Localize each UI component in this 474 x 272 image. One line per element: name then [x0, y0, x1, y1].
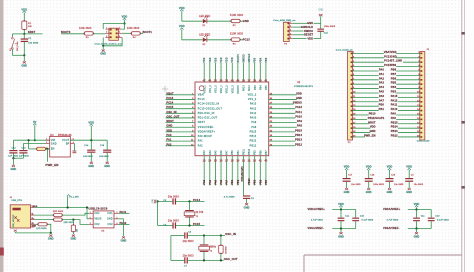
svg-text:VDD_3: VDD_3 [232, 85, 234, 94]
svg-text:GND: GND [338, 235, 344, 238]
svg-text:1uF 0603: 1uF 0603 [19, 155, 29, 157]
svg-text:NRST: NRST [166, 119, 174, 123]
wire [14, 232, 16, 233]
wire [314, 22, 321, 24]
svg-text:0.1uF 0603: 0.1uF 0603 [437, 220, 449, 222]
svg-text:104 0603: 104 0603 [99, 156, 109, 158]
wire (U2 top pin) [242, 63, 244, 82]
wire [346, 182, 348, 188]
svg-text:PA4: PA4 [209, 150, 212, 155]
svg-text:VDD: VDD [232, 57, 234, 62]
junction [340, 208, 342, 210]
wire VOUT rail [70, 139, 107, 141]
wire (U2 left pin 3) [166, 103, 196, 105]
junction [34, 139, 36, 141]
junction [203, 234, 205, 236]
wire (P2 pin 15) [396, 114, 420, 116]
svg-text:44: 44 [208, 79, 212, 82]
wire [181, 11, 183, 21]
svg-text:USB_OTG: USB_OTG [11, 200, 22, 202]
wire [46, 149, 48, 162]
wire [220, 236, 222, 246]
svg-text:PA7: PA7 [379, 98, 385, 102]
svg-text:4: 4 [73, 142, 74, 144]
svg-text:PA9: PA9 [391, 111, 397, 115]
power flag VDD (C17) [345, 168, 348, 170]
resistor R7 22R [54, 214, 63, 217]
LED D2 PC13 LED [203, 38, 207, 43]
wire (U2 right pin 32) [269, 126, 297, 128]
svg-text:GND: GND [391, 54, 397, 58]
svg-text:10n 0603: 10n 0603 [351, 184, 361, 186]
svg-text:Conn_02x03_2.54mm_2un: Conn_02x03_2.54mm_2un [95, 44, 122, 46]
svg-text:40: 40 [259, 79, 263, 82]
svg-text:VDD: VDD [406, 165, 412, 169]
capacitor C3 4.7u (below U2) [243, 195, 250, 196]
connector P4 SWD 1x5 header [284, 22, 290, 41]
wire [220, 253, 222, 260]
svg-text:44: 44 [236, 79, 240, 82]
wire 8M gnd rail [170, 236, 172, 261]
wire (P1 pin 3) [353, 61, 384, 63]
svg-text:16: 16 [220, 160, 224, 163]
svg-text:PC15: PC15 [166, 105, 173, 109]
svg-text:I/O2: I/O2 [94, 224, 100, 226]
wire (U2 top pin) [209, 63, 211, 82]
wire (U2 right pin 35) [269, 140, 296, 142]
wire (P1 pin 17) [353, 123, 369, 125]
svg-text:43: 43 [264, 160, 268, 163]
ground (SWD) pointing up [319, 14, 323, 16]
pin stub J4 pin 5 [31, 226, 35, 228]
wire (P2 pin 6) [396, 74, 420, 76]
svg-text:PA10: PA10 [250, 117, 257, 120]
wire (U2 right pin 31) [269, 122, 297, 124]
wire [24, 33, 42, 35]
junction [23, 33, 25, 35]
svg-text:PD1-OSC_OUT: PD1-OSC_OUT [198, 118, 218, 120]
resistor R1 10K (NRST pull-up) [22, 21, 27, 29]
svg-text:Conn_01x20: Conn_01x20 [417, 141, 431, 143]
wire [189, 201, 191, 210]
capacitor C14 10uF (VOUT) [87, 150, 95, 151]
wire (P1 pin 8) [353, 83, 379, 85]
svg-text:PC15: PC15 [193, 222, 201, 226]
wire (U2 top pin) [248, 63, 250, 82]
wire [46, 148, 48, 150]
svg-text:1: 1 [290, 22, 291, 24]
svg-text:GND: GND [121, 240, 127, 243]
ground (C14) [90, 162, 93, 164]
svg-text:PB10: PB10 [249, 178, 251, 185]
wire [340, 221, 342, 228]
capacitor 0.1uF (VDDA) [352, 218, 359, 219]
svg-text:PA7: PA7 [226, 179, 229, 184]
svg-text:USB_MICRO: USB_MICRO [13, 214, 15, 228]
wire [176, 200, 205, 202]
wire [23, 34, 25, 39]
svg-text:VDD: VDD [344, 165, 350, 169]
svg-text:PA8: PA8 [391, 116, 397, 120]
pin stub U1 VOUT [70, 139, 74, 141]
wire [389, 170, 391, 178]
svg-text:R5: R5 [233, 25, 236, 27]
wire [62, 213, 89, 215]
svg-text:PA6: PA6 [220, 179, 223, 184]
svg-text:PA1: PA1 [166, 138, 172, 142]
svg-text:VDDA/VREF+: VDDA/VREF+ [308, 207, 326, 211]
wire [408, 182, 410, 188]
wire [408, 209, 431, 211]
svg-text:1: 1 [90, 212, 91, 214]
svg-text:NRST: NRST [368, 120, 376, 124]
svg-text:VSS_3: VSS_3 [216, 85, 218, 93]
junction [90, 139, 92, 141]
wire [118, 212, 129, 214]
wire (P2 pin 9) [396, 88, 420, 90]
svg-text:36: 36 [225, 79, 229, 82]
svg-text:PB5: PB5 [266, 85, 268, 90]
svg-text:VSS_2: VSS_2 [210, 85, 212, 93]
svg-text:RT9193-33: RT9193-33 [58, 134, 72, 137]
wire [181, 30, 183, 40]
svg-text:20p 0603: 20p 0603 [183, 240, 194, 243]
pin stub U1 GND [46, 143, 50, 145]
wire [368, 182, 370, 188]
connector P2 1x20 header [420, 52, 425, 141]
wire (U2 left pin 12) [166, 145, 196, 147]
crystal Y2 8MHz [200, 244, 209, 245]
svg-text:48: 48 [231, 79, 235, 82]
wire (U2 top pin) [259, 63, 261, 82]
resistor R6 510R [231, 38, 240, 41]
svg-text:VSS: VSS [215, 57, 217, 62]
svg-text:VDDA/VREF+: VDDA/VREF+ [383, 207, 401, 211]
svg-text:PA14: PA14 [248, 85, 251, 92]
wire (U2 bottom pin) [237, 156, 239, 186]
pin stub J4 pin 1 [31, 207, 35, 209]
svg-text:4.7u 0603: 4.7u 0603 [224, 196, 235, 198]
wire [140, 32, 143, 34]
wire (P1 pin 2) [353, 57, 384, 59]
wire [416, 221, 418, 228]
svg-text:PA15: PA15 [391, 94, 398, 98]
wire (P1 pin 14) [353, 110, 379, 112]
svg-text:6: 6 [116, 212, 117, 214]
svg-text:C10: C10 [435, 215, 440, 217]
wire [72, 232, 74, 234]
ESD protection U3 body [93, 211, 114, 228]
wire (U2 bottom pin) [203, 156, 205, 186]
svg-text:D1: D1 [203, 25, 206, 27]
svg-text:VDD: VDD [227, 57, 229, 62]
wire [23, 42, 25, 55]
svg-text:VDD: VDD [414, 202, 420, 206]
wire (P2 pin 7) [396, 79, 420, 81]
wire (U2 left pin 1) [166, 94, 196, 96]
svg-text:PB7: PB7 [266, 179, 268, 184]
wire (P2 pin 4) [396, 66, 420, 68]
svg-text:BOOT0: BOOT0 [238, 85, 240, 94]
wire (P1 pin 7) [353, 79, 379, 81]
wire ID [35, 223, 38, 225]
wire [240, 39, 243, 41]
wire [22, 144, 24, 151]
svg-text:VSSA/VREF-: VSSA/VREF- [198, 126, 215, 129]
svg-text:PD0-OSC_IN: PD0-OSC_IN [198, 113, 215, 115]
svg-text:VSSA/VREF-: VSSA/VREF- [308, 226, 325, 230]
capacitor 0.1uF (VDDA) [428, 218, 435, 219]
wire [188, 259, 224, 261]
svg-text:PA9: PA9 [251, 121, 256, 124]
svg-text:VOUT: VOUT [62, 140, 70, 142]
svg-text:41: 41 [264, 79, 268, 82]
wire [293, 30, 304, 32]
wire (U2 left pin 7) [166, 122, 196, 124]
resistor R11 1K5 [38, 223, 47, 226]
svg-text:PB5: PB5 [266, 57, 268, 62]
svg-text:C13: C13 [22, 147, 27, 149]
wire (P1 pin 1) [353, 52, 384, 54]
wire [293, 26, 302, 28]
svg-text:Conn_ARM_SWD_sm: Conn_ARM_SWD_sm [273, 19, 295, 22]
svg-text:14: 14 [208, 160, 212, 163]
svg-text:GND: GND [318, 10, 323, 12]
wire [50, 233, 52, 234]
pin stubs of P4 [289, 22, 292, 24]
svg-text:PA11: PA11 [391, 103, 398, 107]
svg-text:SWDIO: SWDIO [293, 101, 302, 105]
junction [86, 206, 88, 208]
svg-text:PB14: PB14 [391, 125, 398, 129]
wire (U2 bottom pin) [220, 156, 222, 186]
capacitor C1 [21, 38, 28, 39]
svg-text:39: 39 [253, 79, 257, 82]
wire (U2 left pin 6) [166, 117, 196, 119]
svg-text:37: 37 [248, 79, 252, 82]
svg-text:GND: GND [100, 53, 106, 56]
svg-text:PC14: PC14 [193, 198, 201, 202]
crystal Y1 32.768kHz [185, 210, 194, 211]
wire [47, 224, 50, 233]
svg-text:VDD_1: VDD_1 [221, 85, 223, 94]
svg-text:PB0: PB0 [232, 179, 234, 184]
wire [332, 209, 355, 211]
ground [102, 50, 105, 52]
resistor R8 22R [54, 218, 63, 221]
wire [72, 220, 74, 225]
svg-text:PA13: PA13 [243, 85, 246, 92]
svg-text:GND: GND [104, 165, 110, 168]
wire [90, 126, 92, 140]
svg-text:100k 0603: 100k 0603 [127, 27, 140, 30]
power flag VDD (PC13 LED) [180, 28, 183, 30]
wire (U2 bottom pin) [231, 156, 233, 186]
ground (C3) [245, 203, 248, 205]
svg-text:24: 24 [220, 79, 224, 82]
wire [23, 13, 25, 21]
wire BP bypass [73, 144, 75, 151]
svg-text:OSC_OUT: OSC_OUT [166, 114, 179, 118]
svg-text:PB15: PB15 [391, 120, 398, 124]
svg-text:PB14: PB14 [250, 136, 257, 138]
junction [72, 219, 74, 221]
svg-text:4: 4 [119, 32, 120, 34]
svg-text:PB15: PB15 [295, 128, 302, 132]
svg-text:PB13: PB13 [391, 129, 398, 133]
svg-text:17: 17 [225, 160, 229, 163]
resistor R3 100k [84, 32, 93, 35]
wire (P1 pin 20) [353, 136, 366, 138]
wire [340, 210, 342, 218]
wire [156, 200, 172, 202]
svg-text:PC14: PC14 [166, 101, 173, 105]
svg-text:VDD: VDD [179, 6, 185, 10]
svg-text:PB2: PB2 [255, 150, 257, 155]
svg-text:GND: GND [32, 226, 37, 228]
svg-text:PB12: PB12 [295, 142, 302, 146]
ground (USB shield) [14, 230, 17, 232]
svg-text:PB7: PB7 [391, 72, 397, 76]
wire VIN rail [13, 139, 49, 141]
pin stub U1 VIN [46, 139, 50, 141]
svg-text:47: 47 [203, 79, 207, 82]
wire [106, 140, 108, 149]
svg-text:100k 0603: 100k 0603 [79, 27, 92, 30]
wire [207, 39, 231, 41]
wire (U2 top pin) [265, 63, 267, 82]
pin stub U3 I/O1 right [114, 212, 118, 214]
junction [50, 232, 52, 234]
svg-text:PB13: PB13 [250, 141, 257, 143]
wire (U2 top pin) [226, 63, 228, 82]
wire [416, 207, 418, 209]
svg-text:10K: 10K [28, 26, 32, 28]
junction [67, 206, 69, 208]
wire (U2 top pin) [254, 63, 256, 82]
svg-text:4: 4 [116, 223, 117, 225]
wire [207, 20, 231, 22]
svg-text:GND: GND [10, 168, 16, 171]
wire (U2 bottom pin) [209, 156, 211, 186]
wire (U2 left pin 11) [166, 140, 196, 142]
power flag VDD (3.3V) [90, 124, 93, 126]
svg-text:D-: D- [32, 214, 34, 216]
svg-text:PA2: PA2 [166, 142, 172, 146]
wire [320, 16, 322, 23]
svg-text:GND: GND [370, 129, 376, 133]
wire [90, 140, 92, 149]
wire (U2 bottom pin) [214, 156, 216, 186]
svg-text:PA3: PA3 [379, 81, 385, 85]
wire [86, 208, 88, 219]
capacitor C17 decoupling [343, 178, 351, 179]
wire [62, 220, 89, 225]
svg-text:2: 2 [116, 217, 117, 219]
svg-text:2: 2 [290, 26, 291, 28]
svg-text:3: 3 [90, 223, 91, 225]
svg-text:NRST: NRST [28, 30, 36, 34]
svg-text:PB3: PB3 [255, 85, 257, 90]
wire (P2 pin 16) [396, 118, 420, 120]
svg-text:1: 1 [46, 139, 47, 141]
wire [67, 196, 69, 207]
wire (P2 pin 17) [398, 123, 420, 125]
svg-text:PA0: PA0 [379, 67, 385, 71]
svg-text:VDD: VDD [122, 15, 128, 19]
svg-text:I/O1: I/O1 [107, 213, 113, 215]
power flag VDD (C4) [408, 168, 411, 170]
wire (P2 pin 1) [396, 52, 420, 54]
svg-text:6: 6 [119, 36, 120, 38]
svg-text:LED-RED: LED-RED [199, 35, 210, 37]
svg-text:GND: GND [244, 206, 250, 209]
wire [408, 170, 410, 178]
junction [340, 227, 342, 229]
jumper J2 2x3 header [109, 28, 119, 40]
wire [416, 229, 418, 233]
grid origin cross [162, 86, 168, 92]
wire [368, 170, 370, 178]
svg-text:PB0: PB0 [379, 103, 385, 107]
wire 32k gnd rail [157, 201, 159, 225]
power flag VDD (reset pull-up) [23, 11, 26, 13]
wire [176, 225, 205, 227]
svg-text:VDD: VDD [338, 202, 344, 206]
wire (U2 right pin 28) [269, 108, 296, 110]
wire [12, 158, 14, 165]
svg-text:4.7uF 0603: 4.7uF 0603 [387, 220, 399, 222]
solder jumper SJ1 (PWR_EN) [37, 147, 46, 150]
wire [346, 170, 348, 178]
svg-text:42: 42 [259, 160, 263, 163]
wire [332, 228, 355, 230]
svg-text:35: 35 [214, 79, 218, 82]
svg-text:PA5: PA5 [214, 179, 217, 184]
svg-text:PB12: PB12 [250, 145, 257, 147]
svg-text:PB1: PB1 [379, 107, 385, 111]
svg-text:PA6: PA6 [220, 150, 223, 155]
svg-text:PB6: PB6 [260, 179, 262, 184]
wire (P1 pin 11) [353, 96, 379, 98]
wire (P2 pin 20) [398, 136, 420, 138]
svg-text:VDD: VDD [296, 91, 302, 95]
svg-text:PC15-OSC32_OUT: PC15-OSC32_OUT [198, 108, 223, 110]
svg-text:PB0: PB0 [232, 150, 234, 155]
svg-text:13: 13 [203, 160, 207, 163]
power flag VDD (VDDA) [415, 206, 418, 208]
svg-text:5V: 5V [33, 120, 37, 124]
svg-text:VDD: VDD [179, 24, 185, 28]
svg-text:10n 0603: 10n 0603 [414, 184, 424, 186]
wire (U2 top pin) [237, 63, 239, 82]
svg-text:PA4: PA4 [209, 179, 212, 184]
wire (U2 right pin 27) [269, 103, 294, 105]
ground (C19) [388, 188, 391, 190]
svg-text:EN: EN [51, 149, 55, 151]
wire (U2 top pin) [220, 63, 222, 82]
junction [203, 259, 205, 261]
ground (VDDA) [415, 232, 418, 234]
svg-text:ST_LINK: ST_LINK [391, 59, 402, 63]
wire [23, 30, 25, 34]
svg-text:GND: GND [296, 96, 302, 100]
svg-text:GND: GND [21, 64, 27, 67]
svg-text:PB1: PB1 [238, 179, 240, 184]
sheet frame [0, 0, 3, 272]
wire (U2 left pin 9) [166, 131, 196, 133]
svg-text:1K5 0603: 1K5 0603 [36, 228, 47, 230]
